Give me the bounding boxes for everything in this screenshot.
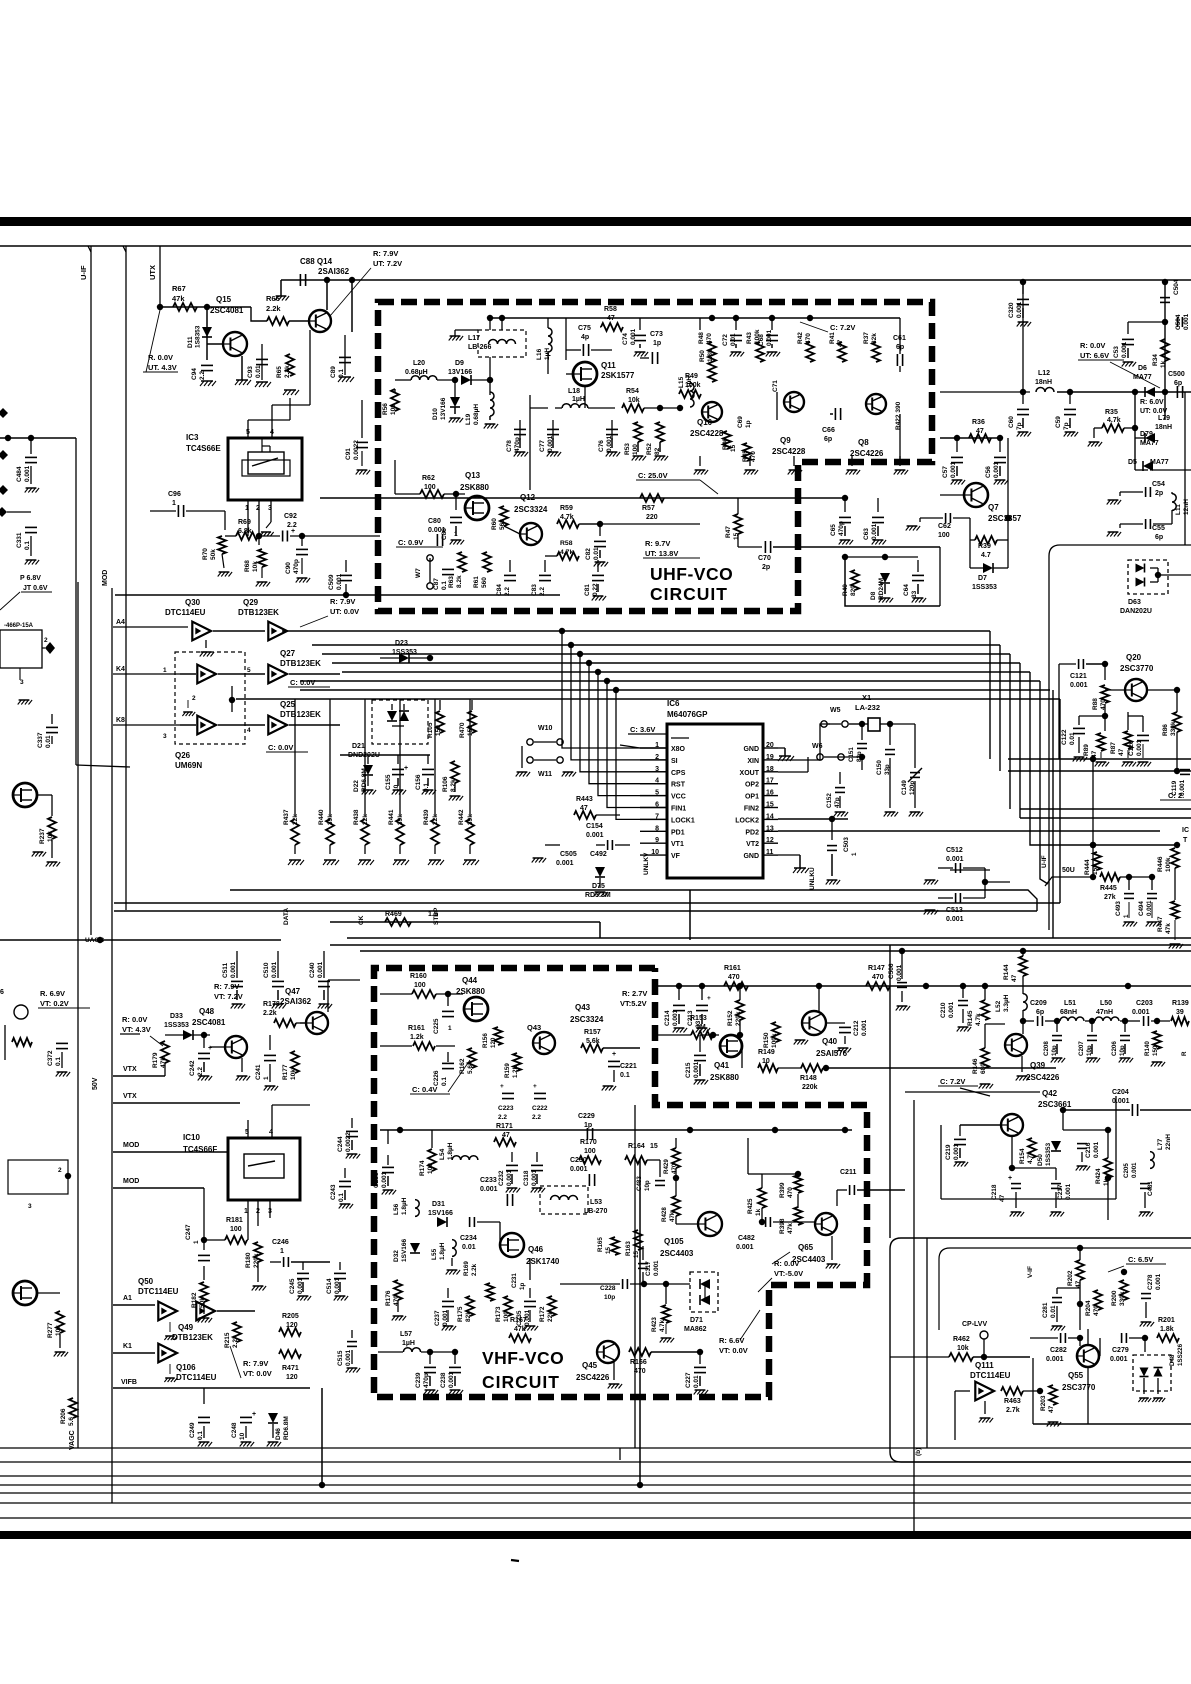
- svg-text:Q8: Q8: [858, 438, 869, 447]
- svg-text:R34: R34: [1152, 354, 1159, 366]
- svg-text:R181: R181: [226, 1217, 243, 1224]
- svg-text:100: 100: [414, 982, 426, 989]
- svg-text:Q50: Q50: [138, 1277, 154, 1286]
- svg-text:UM69N: UM69N: [175, 761, 202, 770]
- svg-text:D50: D50: [1037, 1154, 1044, 1166]
- svg-text:R149: R149: [758, 1049, 775, 1056]
- svg-text:1SS353: 1SS353: [392, 649, 417, 656]
- svg-text:1p: 1p: [653, 340, 661, 347]
- svg-text:47: 47: [976, 428, 984, 435]
- svg-text:R49: R49: [685, 373, 698, 380]
- svg-text:M64076GP: M64076GP: [667, 710, 708, 719]
- svg-text:0.001: 0.001: [948, 1001, 955, 1018]
- svg-text:1: 1: [454, 531, 458, 538]
- svg-text:3: 3: [28, 1203, 32, 1210]
- svg-text:XIN: XIN: [747, 758, 759, 765]
- svg-text:100k: 100k: [771, 1033, 778, 1048]
- svg-text:15: 15: [733, 532, 740, 540]
- svg-text:39k: 39k: [467, 814, 474, 825]
- svg-text:R: 7.9V: R: 7.9V: [373, 249, 398, 258]
- svg-text:C87: C87: [433, 578, 440, 590]
- svg-text:L57: L57: [400, 1331, 412, 1338]
- svg-text:R180: R180: [245, 1252, 252, 1268]
- svg-text:CK: CK: [358, 915, 365, 925]
- svg-text:C63: C63: [863, 528, 870, 540]
- svg-text:C54: C54: [1152, 481, 1165, 488]
- svg-text:0.001: 0.001: [606, 435, 613, 452]
- svg-text:Q25: Q25: [280, 700, 296, 709]
- svg-text:R462: R462: [953, 1336, 970, 1343]
- svg-text:L52: L52: [995, 1000, 1002, 1012]
- svg-text:2SK1740: 2SK1740: [526, 1257, 560, 1266]
- svg-text:2.2: 2.2: [539, 587, 546, 596]
- svg-text:47k: 47k: [669, 1211, 676, 1222]
- svg-text:C94: C94: [191, 368, 198, 380]
- svg-text:C207: C207: [1078, 1041, 1085, 1056]
- svg-text:4.7k: 4.7k: [560, 514, 574, 521]
- svg-text:L12: L12: [1038, 370, 1050, 377]
- svg-text:C: 0.9V: C: 0.9V: [398, 538, 423, 547]
- svg-text:2SC3324: 2SC3324: [570, 1015, 604, 1024]
- svg-text:0.1: 0.1: [441, 1077, 448, 1086]
- svg-text:15: 15: [650, 1143, 658, 1150]
- svg-text:L16: L16: [536, 348, 543, 360]
- svg-text:+: +: [208, 1045, 212, 1052]
- svg-text:R36: R36: [972, 419, 985, 426]
- svg-text:47k: 47k: [172, 294, 185, 303]
- svg-text:UHF-VCO: UHF-VCO: [650, 564, 733, 584]
- svg-text:0.001: 0.001: [334, 1277, 341, 1294]
- svg-text:47: 47: [580, 805, 588, 812]
- svg-text:C53: C53: [1113, 346, 1120, 358]
- svg-text:Q7: Q7: [988, 503, 999, 512]
- svg-text:FIN1: FIN1: [671, 806, 686, 813]
- svg-text:47: 47: [837, 339, 844, 347]
- svg-text:C237: C237: [434, 1310, 441, 1326]
- svg-text:0.1: 0.1: [55, 1057, 62, 1066]
- svg-text:R42: R42: [797, 332, 804, 344]
- svg-text:1p: 1p: [584, 1122, 592, 1129]
- svg-text:C504: C504: [1175, 314, 1182, 330]
- svg-text:R53: R53: [624, 443, 631, 455]
- svg-text:R150: R150: [763, 1032, 770, 1048]
- svg-text:R442: R442: [458, 809, 465, 825]
- svg-text:Q40: Q40: [822, 1037, 838, 1046]
- svg-text:1SS353: 1SS353: [164, 1022, 189, 1029]
- svg-text:C212: C212: [853, 1020, 860, 1036]
- svg-text:0.001: 0.001: [1183, 313, 1190, 330]
- svg-text:MA77: MA77: [1140, 440, 1159, 447]
- svg-text:L53: L53: [590, 1199, 602, 1206]
- svg-text:39k: 39k: [397, 814, 404, 825]
- svg-text:0.001: 0.001: [693, 1061, 700, 1078]
- svg-text:15k: 15k: [1092, 864, 1099, 875]
- svg-text:C: 6.5V: C: 6.5V: [1128, 1255, 1153, 1264]
- svg-text:2.2k: 2.2k: [284, 365, 291, 378]
- svg-text:10: 10: [393, 784, 400, 792]
- svg-text:10k: 10k: [628, 397, 640, 404]
- svg-text:68nH: 68nH: [1060, 1009, 1077, 1016]
- svg-text:100: 100: [938, 532, 950, 539]
- svg-text:C209: C209: [1030, 1000, 1047, 1007]
- svg-text:L77: L77: [1157, 1138, 1164, 1150]
- svg-text:0.001: 0.001: [766, 329, 773, 346]
- svg-text:C: 0.4V: C: 0.4V: [412, 1085, 437, 1094]
- svg-text:0.68µH: 0.68µH: [405, 369, 428, 376]
- svg-text:C80: C80: [428, 518, 441, 525]
- svg-text:100: 100: [584, 1148, 596, 1155]
- svg-text:C232: C232: [498, 1170, 505, 1186]
- svg-text:VT: 0.2V: VT: 0.2V: [40, 999, 69, 1008]
- svg-text:R399: R399: [779, 1182, 786, 1198]
- svg-text:L18: L18: [568, 388, 580, 395]
- svg-text:10p: 10p: [1119, 1045, 1126, 1056]
- svg-text:C120: C120: [1128, 740, 1135, 756]
- svg-text:C504: C504: [1173, 279, 1180, 295]
- svg-text:Q39: Q39: [1030, 1061, 1046, 1070]
- svg-text:2.2k: 2.2k: [263, 1010, 277, 1017]
- svg-text:R63: R63: [448, 576, 455, 588]
- svg-text:0.001: 0.001: [1110, 1356, 1128, 1363]
- svg-text:R58: R58: [560, 540, 573, 547]
- svg-text:R202: R202: [1067, 1270, 1074, 1286]
- svg-text:Q20: Q20: [1126, 653, 1142, 662]
- svg-text:R69: R69: [238, 519, 251, 526]
- svg-text:R67: R67: [172, 284, 186, 293]
- svg-text:C154: C154: [586, 823, 603, 830]
- svg-text:D71: D71: [690, 1317, 703, 1324]
- svg-text:C204: C204: [1112, 1089, 1129, 1096]
- svg-text:2.2: 2.2: [197, 1067, 204, 1076]
- svg-text:Q11: Q11: [601, 361, 616, 370]
- svg-text:0.001: 0.001: [861, 1019, 868, 1036]
- svg-text:0.0022: 0.0022: [353, 440, 360, 460]
- svg-text:C122: C122: [1061, 729, 1068, 745]
- svg-text:IC3: IC3: [186, 433, 199, 442]
- svg-text:C73: C73: [650, 331, 663, 338]
- svg-text:470: 470: [671, 1163, 678, 1174]
- svg-text:R443: R443: [576, 796, 593, 803]
- svg-text:1µH: 1µH: [572, 396, 585, 403]
- svg-text:+: +: [252, 1411, 256, 1418]
- svg-text:W7: W7: [415, 568, 422, 578]
- svg-text:0.001: 0.001: [653, 1260, 660, 1276]
- svg-text:C281: C281: [1042, 1302, 1049, 1318]
- svg-text:IC: IC: [1182, 827, 1189, 834]
- svg-text:0.001: 0.001: [993, 461, 1000, 478]
- svg-text:C81: C81: [584, 584, 591, 596]
- svg-text:R144: R144: [1003, 964, 1010, 980]
- svg-text:OP2: OP2: [745, 782, 759, 789]
- svg-text:560: 560: [481, 577, 488, 588]
- svg-text:10k: 10k: [957, 1345, 969, 1352]
- svg-text:JT 0.6V: JT 0.6V: [23, 585, 48, 592]
- svg-text:2SC4228: 2SC4228: [772, 447, 806, 456]
- svg-text:DAN202U: DAN202U: [1120, 608, 1152, 615]
- svg-text:C216: C216: [1085, 1142, 1092, 1158]
- svg-text:C244: C244: [337, 1136, 344, 1152]
- svg-text:R469: R469: [385, 911, 402, 918]
- svg-text:D10: D10: [432, 408, 439, 420]
- svg-text:D21: D21: [352, 743, 365, 750]
- svg-text:100: 100: [632, 444, 639, 455]
- svg-text:100: 100: [503, 1311, 510, 1322]
- svg-text:10: 10: [762, 1058, 770, 1065]
- svg-text:K4: K4: [116, 666, 125, 673]
- svg-text:C152: C152: [826, 793, 833, 808]
- svg-text:GND: GND: [743, 746, 759, 753]
- svg-text:470: 470: [706, 333, 713, 344]
- svg-text:47k: 47k: [1165, 923, 1172, 934]
- svg-text:R139: R139: [1172, 1000, 1189, 1007]
- svg-text:2SC3324: 2SC3324: [514, 505, 548, 514]
- svg-text:0.01: 0.01: [255, 365, 262, 378]
- svg-text:1: 1: [163, 667, 167, 674]
- svg-text:DTC114EU: DTC114EU: [165, 608, 206, 617]
- svg-text:L51: L51: [1064, 1000, 1076, 1007]
- svg-text:120: 120: [286, 1322, 298, 1329]
- svg-text:C226: C226: [433, 1070, 440, 1086]
- svg-text:D9: D9: [455, 360, 464, 367]
- svg-text:W11: W11: [538, 771, 552, 778]
- svg-text:D31: D31: [432, 1201, 445, 1208]
- svg-text:18nH: 18nH: [1155, 424, 1172, 431]
- svg-text:R62: R62: [422, 475, 435, 482]
- svg-text:C239: C239: [415, 1372, 422, 1388]
- svg-text:0.001: 0.001: [1093, 1141, 1100, 1158]
- svg-text:R146: R146: [972, 1058, 979, 1074]
- svg-text:C223: C223: [498, 1105, 514, 1112]
- svg-text:R170: R170: [580, 1139, 597, 1146]
- svg-text:2SAI362: 2SAI362: [280, 997, 312, 1006]
- svg-text:C278: C278: [1147, 1274, 1154, 1290]
- svg-text:Q27: Q27: [280, 649, 296, 658]
- svg-text:VT1: VT1: [671, 841, 684, 848]
- svg-text:R429: R429: [663, 1159, 670, 1174]
- svg-text:470: 470: [1093, 1305, 1100, 1316]
- svg-text:C225: C225: [433, 1018, 440, 1034]
- svg-text:R160: R160: [410, 973, 427, 980]
- svg-text:R159: R159: [504, 1063, 511, 1078]
- svg-text:C56: C56: [985, 466, 992, 478]
- svg-text:C149: C149: [901, 780, 908, 795]
- svg-text:RST: RST: [671, 782, 686, 789]
- svg-text:0.001: 0.001: [736, 1244, 754, 1251]
- svg-text:R105: R105: [427, 722, 434, 738]
- svg-text:VCC: VCC: [671, 794, 686, 801]
- svg-text:T: T: [1183, 837, 1188, 844]
- svg-text:R: R: [1181, 1051, 1188, 1056]
- svg-text:R428: R428: [661, 1207, 668, 1222]
- svg-text:Q55: Q55: [1068, 1371, 1084, 1380]
- svg-text:C64: C64: [903, 584, 910, 596]
- svg-text:8.2k: 8.2k: [456, 575, 463, 588]
- svg-text:L20: L20: [413, 360, 425, 367]
- svg-text:R169: R169: [463, 1261, 470, 1276]
- svg-text:0.001: 0.001: [317, 961, 324, 978]
- svg-text:820: 820: [850, 585, 857, 596]
- svg-text:4.7k: 4.7k: [659, 1319, 666, 1332]
- svg-text:C506: C506: [888, 963, 895, 979]
- svg-text:R237: R237: [39, 828, 46, 844]
- svg-text:C: 3.6V: C: 3.6V: [630, 725, 655, 734]
- svg-text:47nH: 47nH: [1096, 1009, 1113, 1016]
- svg-text:0.001: 0.001: [950, 461, 957, 478]
- svg-text:MA77: MA77: [1133, 374, 1152, 381]
- svg-text:330k: 330k: [1170, 721, 1177, 736]
- svg-text:120p: 120p: [909, 781, 916, 795]
- svg-text:120: 120: [490, 1037, 497, 1048]
- svg-text:2.2k: 2.2k: [232, 1335, 239, 1348]
- svg-text:2SK880: 2SK880: [460, 483, 489, 492]
- svg-text:VTX: VTX: [123, 1066, 137, 1073]
- svg-text:C231: C231: [511, 1273, 518, 1288]
- svg-text:MOD: MOD: [123, 1142, 139, 1149]
- svg-text:1SV166: 1SV166: [428, 1210, 453, 1217]
- svg-text:K8: K8: [116, 717, 125, 724]
- svg-text:R463: R463: [1004, 1398, 1021, 1405]
- svg-text:47: 47: [999, 1194, 1006, 1202]
- svg-text:R470: R470: [459, 722, 466, 738]
- svg-text:R200: R200: [1111, 1290, 1118, 1306]
- svg-text:X8O: X8O: [671, 746, 686, 753]
- svg-text:U-IF: U-IF: [1041, 855, 1048, 868]
- svg-text:C318: C318: [523, 1170, 530, 1186]
- svg-text:R40: R40: [842, 584, 849, 596]
- svg-text:R: 0.0V: R: 0.0V: [122, 1015, 147, 1024]
- svg-text:0.001: 0.001: [1131, 1162, 1138, 1178]
- svg-text:D5: D5: [1128, 459, 1137, 466]
- svg-text:2SK880: 2SK880: [456, 987, 485, 996]
- svg-text:D8: D8: [870, 591, 877, 600]
- svg-text:R65: R65: [276, 366, 283, 378]
- svg-text:4.7k: 4.7k: [1027, 1151, 1034, 1164]
- svg-text:220k: 220k: [735, 1011, 742, 1026]
- svg-text:SI: SI: [671, 758, 678, 765]
- svg-text:10p: 10p: [604, 1294, 615, 1301]
- svg-text:220: 220: [646, 514, 658, 521]
- svg-text:C514: C514: [326, 1278, 333, 1294]
- svg-text:C230: C230: [570, 1157, 587, 1164]
- svg-text:0.001: 0.001: [1155, 1273, 1162, 1290]
- svg-text:U-IF: U-IF: [79, 265, 88, 280]
- svg-text:47k: 47k: [787, 1223, 794, 1234]
- svg-text:2SK1577: 2SK1577: [601, 371, 635, 380]
- svg-text:2.2k: 2.2k: [471, 1263, 478, 1276]
- svg-text:3: 3: [20, 679, 24, 686]
- svg-text:R140: R140: [1144, 1041, 1151, 1056]
- svg-text:1k: 1k: [755, 1208, 762, 1216]
- svg-text:2.2k: 2.2k: [266, 304, 281, 313]
- svg-text:R174: R174: [419, 1160, 426, 1176]
- svg-text:LA-232: LA-232: [855, 703, 880, 712]
- svg-text:R70: R70: [202, 548, 209, 560]
- svg-text:0.001: 0.001: [570, 1166, 588, 1173]
- svg-text:2.2: 2.2: [199, 371, 206, 380]
- svg-text:C331: C331: [16, 532, 23, 548]
- svg-text:Q30: Q30: [185, 598, 201, 607]
- svg-text:UT: 13.8V: UT: 13.8V: [645, 549, 678, 558]
- svg-text:C242: C242: [189, 1060, 196, 1076]
- svg-text:R: 7.9V: R: 7.9V: [330, 597, 355, 606]
- svg-text:D46: D46: [275, 1428, 282, 1440]
- svg-text:82k: 82k: [871, 333, 878, 344]
- svg-text:Q43: Q43: [527, 1023, 541, 1032]
- svg-text:R445: R445: [1100, 885, 1117, 892]
- svg-text:D7: D7: [978, 575, 987, 582]
- svg-text:Q13: Q13: [465, 471, 481, 480]
- svg-text:C91: C91: [345, 448, 352, 460]
- svg-text:0.01: 0.01: [45, 735, 52, 748]
- svg-text:50k: 50k: [210, 549, 217, 560]
- svg-text:RD24M: RD24M: [878, 578, 885, 600]
- svg-text:4.7k: 4.7k: [975, 1013, 982, 1026]
- svg-text:LOCK1: LOCK1: [671, 817, 695, 824]
- svg-text:47: 47: [1048, 1405, 1055, 1413]
- svg-text:+: +: [404, 765, 408, 772]
- svg-text:100k: 100k: [685, 382, 701, 389]
- svg-text:DTB123EK: DTB123EK: [280, 710, 321, 719]
- svg-text:C69: C69: [737, 416, 744, 428]
- svg-text:C249: C249: [189, 1422, 196, 1438]
- svg-text:C233: C233: [480, 1177, 497, 1184]
- svg-text:D22: D22: [353, 780, 360, 792]
- svg-text:0.1: 0.1: [338, 1193, 345, 1202]
- svg-text:MA862: MA862: [684, 1326, 707, 1333]
- svg-text:1: 1: [263, 1076, 270, 1080]
- svg-text:1SS353: 1SS353: [972, 584, 997, 591]
- svg-text:R215: R215: [224, 1332, 231, 1348]
- svg-text:C512: C512: [946, 847, 963, 854]
- svg-text:D11: D11: [187, 336, 194, 348]
- svg-text:C65: C65: [830, 524, 837, 536]
- svg-text:C155: C155: [385, 774, 392, 790]
- svg-text:R165: R165: [597, 1237, 604, 1252]
- svg-text:0.001: 0.001: [946, 856, 964, 863]
- svg-text:R425: R425: [747, 1198, 754, 1214]
- svg-text:22nH: 22nH: [1165, 1134, 1172, 1150]
- svg-text:Q9: Q9: [780, 436, 791, 445]
- svg-text:0.001: 0.001: [448, 1371, 455, 1388]
- svg-text:C156: C156: [415, 774, 422, 790]
- svg-text:L15: L15: [678, 376, 685, 388]
- svg-text:13V166: 13V166: [448, 369, 472, 376]
- svg-text:C222: C222: [532, 1105, 548, 1112]
- svg-text:R61: R61: [473, 576, 480, 588]
- svg-text:27k: 27k: [1104, 894, 1116, 901]
- svg-text:C205: C205: [1123, 1163, 1130, 1178]
- svg-text:10k: 10k: [55, 1325, 62, 1336]
- svg-text:UT: 0.0V: UT: 0.0V: [330, 607, 359, 616]
- svg-text:C88 Q14: C88 Q14: [300, 257, 333, 266]
- svg-text:1.2k: 1.2k: [512, 1065, 519, 1078]
- svg-text:R: 2.7V: R: 2.7V: [622, 989, 647, 998]
- svg-text:2SC4226: 2SC4226: [576, 1373, 610, 1382]
- svg-text:1: 1: [851, 852, 858, 856]
- svg-text:2.7k: 2.7k: [1006, 1407, 1020, 1414]
- svg-text:Q49: Q49: [178, 1323, 194, 1332]
- svg-text:MOD: MOD: [102, 570, 109, 586]
- svg-text:R86: R86: [1162, 724, 1169, 736]
- svg-text:VIFB: VIFB: [121, 1379, 137, 1386]
- svg-text:Q26: Q26: [175, 751, 191, 760]
- svg-text:0.1: 0.1: [197, 1431, 204, 1440]
- svg-text:6p: 6p: [1155, 534, 1163, 541]
- svg-text:47: 47: [1011, 974, 1018, 982]
- svg-text:1p: 1p: [519, 1283, 526, 1290]
- svg-text:C: 7.2V: C: 7.2V: [940, 1077, 965, 1086]
- svg-text:C90: C90: [285, 562, 292, 574]
